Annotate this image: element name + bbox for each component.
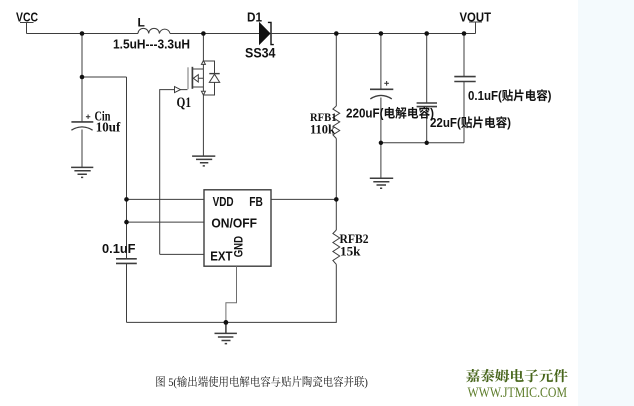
junction 0.1uF branch on VOUT rail	[462, 31, 467, 36]
wire gate line with arrow	[160, 87, 188, 255]
wire Q1 source to ground	[202, 95, 204, 156]
svg-text:WWW.JTMIC.COM: WWW.JTMIC.COM	[468, 385, 568, 401]
svg-text:EXT: EXT	[210, 249, 232, 264]
ground below Q1	[192, 156, 215, 166]
wire 0.1uF down to cap bottom line	[463, 82, 465, 143]
wire 220uF to bottom node	[380, 98, 382, 143]
wire VDD line	[127, 198, 205, 200]
node FB divider tap	[334, 197, 339, 202]
svg-text:0.1uF(贴片电容): 0.1uF(贴片电容)	[468, 89, 552, 103]
junction Cin branch on VCC rail	[80, 31, 85, 36]
capacitor C3 220uF plates	[370, 81, 393, 99]
wire Cin node to left vertical	[82, 76, 127, 78]
resistor RFB1 zigzag	[333, 106, 340, 139]
node VOUT terminal	[469, 22, 482, 34]
wire ON/OFF line	[127, 221, 205, 223]
wire diode cathode to VOUT	[271, 33, 476, 35]
wire Q1 drain from rail	[202, 34, 204, 62]
junction 22uF branch on VOUT rail	[424, 31, 429, 36]
IC U1 box	[204, 190, 271, 266]
wire 220uF node to ground	[380, 143, 382, 178]
svg-text:15k: 15k	[340, 244, 361, 259]
wire 22uF branch	[426, 34, 428, 104]
diode body of Q1	[203, 61, 219, 95]
diode D1 (SS34 schottky)	[260, 22, 274, 44]
svg-text:ON/OFF: ON/OFF	[211, 216, 257, 231]
svg-text:L: L	[138, 16, 145, 30]
capacitor Cin plates	[71, 115, 93, 131]
svg-text:GND: GND	[232, 236, 246, 258]
junction RFB1 branch on VOUT rail	[334, 31, 339, 36]
svg-text:SS34: SS34	[245, 46, 276, 61]
wire RFB2 top	[335, 199, 337, 230]
svg-text:VDD: VDD	[213, 194, 234, 209]
node VCC terminal	[20, 23, 34, 34]
wire 0.1uF to bottom rail	[126, 264, 128, 323]
capacitor C5 0.1uF plates	[454, 77, 475, 82]
wire 22uF to bottom node	[426, 107, 428, 143]
svg-text:嘉泰姆电子元件: 嘉泰姆电子元件	[466, 366, 568, 386]
wire EXT line	[160, 253, 204, 255]
wire cap bottom line	[381, 142, 464, 144]
ground below Cin	[71, 167, 93, 177]
wire GND pin of IC	[226, 266, 237, 322]
ground below IC	[215, 322, 237, 343]
wire 220uF branch	[380, 34, 382, 90]
wire Cin branch down	[81, 34, 83, 122]
svg-text:FB: FB	[249, 194, 263, 209]
svg-text:1.5uH---3.3uH: 1.5uH---3.3uH	[113, 38, 190, 52]
transistor Q1 nmos	[188, 61, 205, 95]
junction ground on bottom rail	[224, 320, 229, 325]
junction VDD line	[124, 197, 129, 202]
svg-text:110k: 110k	[310, 122, 336, 137]
svg-text:10uf: 10uf	[96, 120, 121, 135]
wire RFB1 top	[335, 34, 337, 107]
svg-text:VCC: VCC	[16, 11, 38, 25]
capacitor C2 0.1uF plates	[116, 259, 137, 264]
wire inductor to diode anode	[170, 33, 260, 35]
svg-text:22uF(贴片电容): 22uF(贴片电容)	[430, 116, 511, 130]
junction Q1 drain / inductor output node	[201, 31, 206, 36]
wire FB line	[271, 198, 336, 200]
wire left vertical down to 0.1uF	[126, 77, 128, 258]
ground below output caps	[370, 178, 393, 188]
inductor L1 coil	[138, 28, 170, 33]
junction ON/OFF line	[124, 220, 129, 225]
junction 220uF branch on VOUT rail	[379, 31, 384, 36]
wire RFB2 bottom	[127, 264, 337, 322]
junction Cin to VDD feed	[80, 75, 85, 80]
wire Cin to ground	[81, 130, 83, 168]
svg-text:0.1uF: 0.1uF	[102, 242, 136, 256]
svg-text:VOUT: VOUT	[460, 11, 492, 25]
wire 0.1uF output branch	[463, 34, 465, 77]
svg-text:Q1: Q1	[177, 95, 192, 111]
background blue strip	[578, 0, 634, 406]
junction 220uF bottom	[379, 141, 383, 145]
svg-text:图 5(输出端使用电解电容与贴片陶瓷电容并联): 图 5(输出端使用电解电容与贴片陶瓷电容并联)	[155, 375, 368, 389]
wire top rail: VCC to inductor	[27, 33, 139, 35]
svg-text:D1: D1	[247, 11, 262, 25]
resistor RFB2 zigzag	[333, 230, 340, 264]
svg-text:220uF(电解电容): 220uF(电解电容)	[346, 107, 434, 121]
capacitor C4 22uF plates	[417, 103, 437, 107]
junction 22uF bottom	[425, 141, 429, 145]
wire RFB1 bottom to FB node	[335, 139, 337, 200]
